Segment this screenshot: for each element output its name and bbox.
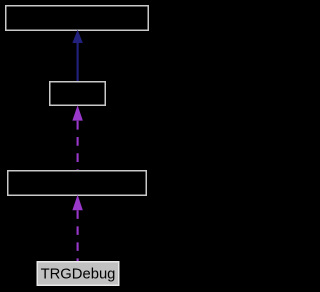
node box middle (label invisible): [50, 82, 106, 106]
svg-text:TRGDebug: TRGDebug: [41, 266, 116, 282]
node TRGDebug (current node, grey fill): [37, 262, 119, 286]
inheritance arrow (solid, midnightblue) from middle box to top box: [72, 30, 83, 82]
node box top (base class, label invisible): [6, 6, 149, 31]
node box third (label invisible): [8, 171, 147, 196]
usage arrow (dashed, darkorchid) from TRGDebug to third box: [72, 195, 83, 261]
usage arrow (dashed, darkorchid) from third box to middle box: [72, 105, 83, 171]
